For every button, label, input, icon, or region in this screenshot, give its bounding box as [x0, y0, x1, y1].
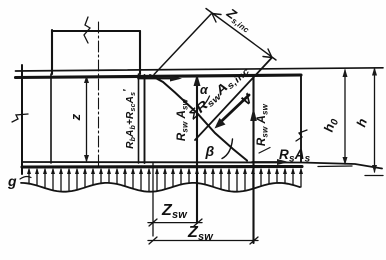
beam top thin line — [16, 68, 384, 71]
column block left edge — [51, 30, 53, 74]
dimension h — [374, 69, 376, 173]
g label leader — [20, 177, 31, 179]
svg-text:h: h — [353, 116, 370, 128]
dimension h0 — [344, 70, 346, 164]
compression force arrow — [138, 78, 178, 80]
dimension line Z_s,inc — [206, 9, 276, 61]
svg-text:Rsw Asw: Rsw Asw — [256, 103, 270, 146]
svg-text:β: β — [205, 143, 215, 159]
block left edge extended through beam — [50, 74, 52, 163]
stirrup 3 with force arrow R_sw A_sw — [252, 75, 254, 243]
beam top thick line — [16, 75, 302, 78]
svg-text:Zsw: Zsw — [187, 224, 214, 243]
distributed load g: wavy baseline — [21, 183, 300, 192]
block right edge extended through beam — [138, 74, 140, 163]
beam bottom thin line — [22, 162, 382, 169]
distributed load arrows — [27, 168, 303, 192]
beam bottom thick line — [22, 165, 302, 169]
dimension z_sw (second) — [148, 240, 258, 242]
svg-text:z: z — [68, 113, 83, 121]
svg-text:Zs,inc: Zs,inc — [222, 5, 255, 35]
z_sw reference extension line (crack apex) — [152, 163, 154, 236]
dimension z (vertical, left) — [86, 77, 88, 161]
load arrows group — [27, 168, 303, 192]
force arrow V — [218, 95, 249, 125]
inclined bars force line — [195, 58, 272, 141]
svg-text:g: g — [7, 173, 17, 189]
break symbol on stirrup 4 — [296, 130, 307, 141]
h bottom extension line — [365, 175, 383, 177]
stirrup 2 with force arrow R_sw A_sw — [196, 76, 198, 223]
svg-text:Zsw: Zsw — [161, 202, 188, 221]
break symbol on block top — [84, 17, 90, 43]
force arrow R_s A_s — [252, 161, 284, 163]
angle alpha arc — [202, 96, 210, 107]
svg-text:RbAb+RscAs′: RbAb+RscAs′ — [122, 89, 137, 149]
svg-text:Rsw Asw: Rsw Asw — [176, 98, 190, 141]
column centerline (dash-dot) — [98, 22, 100, 166]
small mark right of crack bottom — [259, 148, 270, 154]
h0 bottom extension line — [318, 165, 352, 168]
svg-text:α: α — [200, 83, 209, 97]
dimension z_sw (first) — [148, 222, 202, 224]
stirrup 4 — [300, 75, 302, 162]
svg-text:h0: h0 — [321, 116, 342, 134]
column block top edge — [52, 30, 140, 32]
crack apex extension line — [154, 14, 211, 75]
break symbol on left end — [12, 114, 28, 122]
stirrup 1 — [144, 75, 146, 163]
column block right edge — [139, 31, 141, 74]
angle beta arc — [222, 139, 233, 159]
svg-text:RsAs: RsAs — [279, 147, 311, 165]
inclined crack — [150, 75, 247, 161]
left end of beam — [21, 65, 23, 174]
